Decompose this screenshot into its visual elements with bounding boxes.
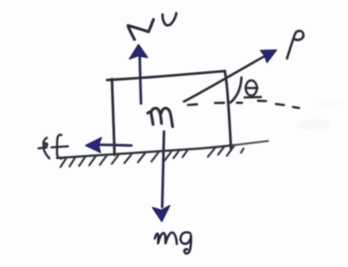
applied force P line [184,57,264,102]
normal force arrowhead [130,45,148,60]
friction arrow (shaft) [100,144,132,147]
label mg [155,232,191,253]
ground line (lighter right part) [233,141,268,145]
weight arrowhead [153,206,170,222]
label m (inside block) [148,108,173,127]
applied force P arrowhead [261,50,277,63]
small u mark beside N [162,13,176,25]
weight arrow mg (shaft) [162,132,164,208]
block m (open rectangle) [107,71,231,155]
faint smudge right-middle [298,119,330,131]
label P [287,31,303,59]
normal force arrow N (shaft) [140,56,141,104]
label N (tilted hand letter) [128,20,154,40]
ground hatching [61,146,244,167]
angle arc [231,78,242,103]
dashed horizontal reference line [188,101,299,108]
label f f [39,135,69,159]
friction arrowhead [86,138,102,153]
ground line [57,145,233,158]
label theta [245,80,262,97]
